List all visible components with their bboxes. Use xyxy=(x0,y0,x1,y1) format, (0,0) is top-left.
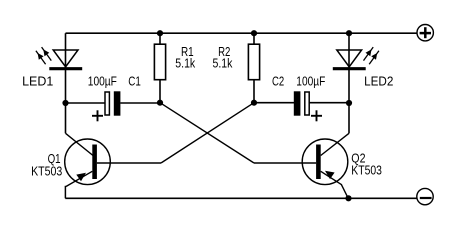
node R1/C1 xyxy=(157,100,163,106)
svg-text:KT503: KT503 xyxy=(351,163,382,178)
transistor Q2 xyxy=(254,133,349,198)
svg-text:KT503: KT503 xyxy=(31,164,62,179)
node top LED2 xyxy=(346,30,352,36)
capacitor C1 xyxy=(66,91,161,121)
LED LED2 xyxy=(333,33,379,68)
wire bottom rail xyxy=(65,197,417,199)
resistor R1 xyxy=(154,33,165,103)
terminal - (negative supply) xyxy=(417,188,433,204)
terminal + (positive supply) xyxy=(417,25,433,41)
node Q2 emitter/rail xyxy=(345,195,351,201)
wire cross-couple R1 node to Q2 base xyxy=(160,103,254,163)
node C2/LED2 xyxy=(346,100,352,106)
svg-text:LED1: LED1 xyxy=(22,74,53,89)
node R2/C2 xyxy=(251,100,257,106)
svg-text:5.1k: 5.1k xyxy=(213,56,233,71)
transistor Q1 xyxy=(65,133,161,198)
svg-text:100µF: 100µF xyxy=(88,74,117,89)
svg-text:100µF: 100µF xyxy=(296,74,325,89)
svg-text:LED2: LED2 xyxy=(364,74,393,89)
wire LED2 cathode down xyxy=(348,69,350,134)
node top R1 xyxy=(157,30,163,36)
node LED1/C1 xyxy=(62,100,68,106)
LED LED1 xyxy=(36,33,82,68)
svg-text:C2: C2 xyxy=(272,74,284,89)
node top R2 xyxy=(251,30,257,36)
wire cross-couple R2 node to Q1 base xyxy=(161,103,254,163)
resistor R2 xyxy=(248,33,259,103)
svg-text:C1: C1 xyxy=(128,74,141,89)
svg-text:5.1k: 5.1k xyxy=(175,56,195,71)
wire LED1 cathode to C1 node xyxy=(65,69,67,134)
capacitor C2 xyxy=(254,91,349,121)
wire top rail xyxy=(66,32,418,34)
